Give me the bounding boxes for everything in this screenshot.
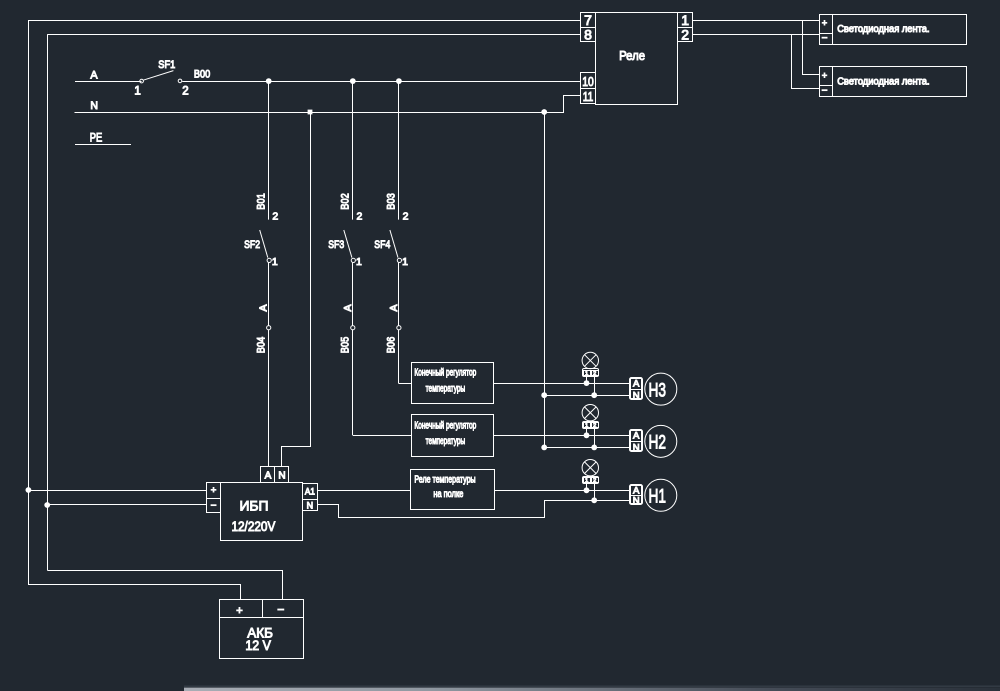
indicator lamp H1 circle	[582, 460, 598, 476]
breaker SF1 contact 1	[140, 79, 144, 83]
wire &#x412;06 segment	[398, 263, 400, 384]
junction A/SF4	[396, 78, 402, 84]
svg-text:1: 1	[356, 256, 362, 268]
svg-text:1: 1	[272, 256, 278, 268]
device H1 A/N inner box	[631, 486, 642, 504]
svg-text:A: A	[633, 379, 640, 390]
relay pin 7 box	[581, 13, 596, 28]
indicator lamp H2 circle	[582, 405, 598, 421]
limit regulator 2 box	[412, 415, 494, 457]
junction A/SF2	[266, 78, 272, 84]
wire shelf relay to H1 A	[494, 490, 629, 492]
svg-text:2: 2	[403, 210, 409, 222]
UPS top N terminal box	[275, 467, 289, 483]
breaker SF2 contact 1	[267, 258, 271, 262]
wire lamp H2 pin1 down	[586, 429, 588, 436]
svg-text:H3: H3	[649, 379, 667, 401]
svg-text:H1: H1	[649, 485, 667, 507]
wire -12V from UPS to relay pin 8 (vertical rail)	[47, 35, 49, 571]
wire UPS - output	[47, 504, 206, 506]
svg-text:8: 8	[584, 27, 592, 43]
svg-text:В04: В04	[255, 337, 267, 353]
wire A line left of SF1	[75, 81, 142, 83]
wire to battery +	[29, 585, 241, 600]
junction H3 lamp/N	[591, 392, 597, 398]
svg-text:Реле температуры: Реле температуры	[414, 474, 475, 485]
svg-text:2: 2	[593, 478, 596, 484]
wire relay pin1 to LED1 +	[693, 20, 820, 22]
device H2 A/N inner box	[631, 431, 642, 451]
svg-text:−: −	[822, 85, 828, 96]
limit regulator 1 box	[412, 363, 494, 404]
junction on +12V rail	[26, 487, 32, 493]
svg-text:+: +	[822, 18, 827, 28]
relay pin 2 box	[678, 28, 693, 42]
lamp H2 terminal cell 1	[584, 423, 591, 428]
terminal point on &#x412;05	[351, 326, 355, 330]
wire UPS + output	[28, 490, 206, 492]
LED strip 1 terminal divider	[819, 33, 833, 35]
svg-text:В01: В01	[255, 193, 267, 209]
svg-text:A1: A1	[305, 486, 315, 496]
wire relay pin2 to LED1 -	[693, 34, 820, 36]
shelf temp relay box	[411, 470, 495, 510]
battery terminal divider v	[262, 600, 264, 618]
svg-text:Реле: Реле	[619, 48, 645, 63]
wire lamp N bus vertical	[544, 112, 546, 447]
wire &#x412;01 upper segment	[268, 81, 270, 220]
indicator lamp H1 X stroke 1	[585, 462, 597, 474]
svg-text:Светодиодная лента.: Светодиодная лента.	[837, 24, 929, 35]
wire +12V horizontal to relay pin 7	[28, 20, 580, 22]
breaker SF2 blade	[260, 230, 268, 258]
svg-text:N: N	[633, 496, 640, 507]
wire &#x412;04 segment	[268, 263, 270, 467]
svg-text:A: A	[258, 304, 270, 311]
wire SF3 to regulator 2	[353, 435, 412, 437]
svg-text:−: −	[822, 33, 828, 44]
indicator lamp H3 circle	[582, 352, 598, 368]
LED strip 1 terminal column	[820, 15, 833, 45]
device H3 circle	[645, 373, 677, 405]
indicator lamp H3 X stroke 1	[585, 355, 597, 367]
svg-text:A: A	[633, 431, 640, 442]
svg-text:12/220V: 12/220V	[231, 518, 275, 534]
UPS box	[221, 483, 303, 541]
svg-text:N: N	[307, 500, 314, 510]
svg-text:ИБП: ИБП	[239, 498, 268, 514]
junction on -12V rail	[44, 502, 50, 508]
relay pin 10 box	[581, 73, 596, 89]
UPS top A terminal box	[261, 467, 275, 483]
wire lamp H3 pin1 down	[586, 377, 588, 384]
wire +12V from UPS to relay pin 7 (vertical rail)	[28, 20, 30, 585]
UPS right N terminal box	[303, 500, 318, 511]
wire &#x412;02 upper segment	[352, 81, 354, 220]
LED strip 2 box	[833, 67, 967, 97]
svg-text:2: 2	[272, 210, 278, 222]
junction H1 lamp/A	[584, 487, 590, 493]
svg-text:+: +	[211, 485, 217, 496]
svg-text:SF3: SF3	[328, 239, 344, 251]
svg-text:PE: PE	[90, 131, 103, 145]
wire N bus to H2 N	[544, 447, 629, 449]
wire regulator2 to H2 A	[494, 435, 630, 437]
svg-text:В02: В02	[339, 193, 351, 209]
device H3 A/N divider	[631, 389, 642, 391]
wire to battery -	[48, 571, 283, 600]
wire branch to LED2 -	[792, 35, 820, 89]
junction H2 lamp/A	[584, 432, 590, 438]
relay pin 11 box	[581, 89, 596, 104]
junction H2 lamp/N	[591, 445, 597, 451]
svg-text:SF2: SF2	[244, 239, 260, 251]
wire &#x412;05 segment	[352, 263, 354, 436]
svg-text:+: +	[822, 70, 827, 80]
svg-text:1: 1	[585, 423, 588, 429]
battery terminal divider h	[220, 617, 303, 619]
wire A line from SF1 to relay pin 10	[182, 81, 580, 83]
svg-text:2: 2	[357, 210, 363, 222]
LED strip 2 terminal column	[820, 67, 833, 97]
breaker SF3 blade	[344, 230, 352, 258]
device H2 circle	[645, 425, 677, 457]
svg-text:H2: H2	[649, 432, 667, 454]
svg-text:В06: В06	[386, 337, 398, 353]
device H3 A/N connector outline	[630, 378, 643, 400]
indicator lamp H1 X stroke 2	[585, 462, 597, 474]
svg-text:1: 1	[134, 86, 140, 98]
svg-text:температуры: температуры	[426, 383, 466, 394]
device H1 circle	[645, 479, 677, 511]
svg-text:1: 1	[585, 478, 588, 484]
relay box	[596, 13, 678, 105]
wire branch to LED2 +	[803, 21, 820, 75]
svg-text:A: A	[388, 304, 400, 311]
svg-text:1: 1	[402, 256, 408, 268]
relay pin 1 box	[678, 13, 693, 28]
junction N bus / H3	[541, 392, 547, 398]
UPS - terminal box	[207, 499, 221, 513]
svg-text:N: N	[278, 470, 285, 481]
wire lamp H2 pin2 down	[594, 429, 596, 448]
svg-text:2: 2	[593, 371, 596, 377]
breaker SF3 contact 1	[351, 258, 355, 262]
device H1 A/N divider	[631, 495, 642, 497]
wire N branch to UPS input	[282, 113, 311, 467]
indicator lamp H3 X stroke 2	[585, 355, 597, 367]
svg-text:2: 2	[182, 86, 188, 98]
svg-text:A: A	[342, 304, 354, 311]
svg-text:2: 2	[681, 27, 689, 43]
junction N/lamp bus	[541, 109, 547, 115]
svg-text:A: A	[90, 70, 98, 82]
wire UPS N to H1 N	[318, 501, 630, 518]
breaker SF1 blade	[143, 71, 173, 81]
wire lamp H1 pin1 down	[586, 484, 588, 491]
svg-text:SF1: SF1	[158, 59, 175, 71]
junction H3 lamp/A	[584, 380, 590, 386]
terminal point on &#x412;04	[267, 326, 271, 330]
wire N bus to H3 N	[544, 395, 629, 397]
svg-text:В00: В00	[194, 68, 210, 80]
lamp H1 terminal cell 1	[584, 478, 591, 483]
lamp H1 terminal block	[583, 477, 599, 484]
lamp H1 terminal cell 2	[592, 478, 599, 483]
lamp H3 terminal block	[583, 369, 599, 377]
svg-text:+: +	[236, 605, 242, 617]
lamp H3 terminal cell 2	[592, 371, 599, 376]
svg-text:−: −	[211, 501, 217, 512]
LED strip 2 terminal divider	[819, 85, 833, 87]
svg-text:N: N	[633, 390, 640, 401]
svg-text:В05: В05	[339, 337, 351, 353]
device H2 A/N connector outline	[630, 430, 643, 452]
svg-text:на полке: на полке	[433, 489, 463, 500]
svg-text:В03: В03	[386, 193, 398, 209]
device H2 A/N divider	[631, 441, 642, 443]
indicator lamp H2 X stroke 2	[585, 407, 597, 419]
svg-text:Светодиодная лента.: Светодиодная лента.	[837, 77, 929, 88]
svg-text:2: 2	[593, 423, 596, 429]
wire -12V horizontal to relay pin 8	[47, 34, 580, 36]
svg-text:N: N	[90, 100, 98, 112]
relay pin 8 box	[581, 28, 596, 42]
junction A/SF3	[350, 78, 356, 84]
svg-text:SF4: SF4	[374, 239, 390, 251]
svg-text:1: 1	[585, 371, 588, 377]
LED strip 1 box	[833, 15, 967, 45]
svg-text:A: A	[265, 470, 272, 481]
svg-text:12 V: 12 V	[245, 637, 271, 653]
UPS A1 terminal box	[303, 484, 318, 500]
lamp H3 terminal cell 1	[584, 371, 591, 376]
wire UPS A1 to H1 (left of box)	[317, 490, 411, 492]
breaker SF4 contact 1	[397, 258, 401, 262]
UPS + terminal box	[207, 483, 221, 499]
svg-text:N: N	[633, 443, 640, 454]
svg-text:температуры: температуры	[426, 436, 466, 447]
terminal point on &#x412;06	[397, 326, 401, 330]
wire PE stub	[75, 144, 131, 146]
junction N bus / H2	[541, 445, 547, 451]
device H3 A/N inner box	[631, 379, 642, 399]
lamp H2 terminal cell 2	[592, 423, 599, 428]
junction N/UPS branch (square)	[308, 110, 313, 115]
wire N line to relay pin 11	[75, 96, 581, 113]
breaker SF4 blade	[390, 230, 398, 258]
wire &#x412;03 upper segment	[398, 81, 400, 220]
wire lamp H1 pin2 down	[594, 484, 596, 501]
svg-text:Конечный регулятор: Конечный регулятор	[414, 420, 476, 431]
junction H1 lamp/N	[591, 497, 597, 503]
indicator lamp H2 X stroke 1	[585, 407, 597, 419]
svg-text:−: −	[277, 603, 284, 617]
wire SF4 to regulator 1	[399, 383, 412, 385]
svg-text:10: 10	[582, 74, 594, 89]
battery box	[220, 600, 304, 659]
wire lamp H3 pin2 down	[594, 377, 596, 396]
device H1 A/N connector outline	[630, 485, 643, 505]
svg-text:Конечный регулятор: Конечный регулятор	[414, 368, 476, 379]
breaker SF1 contact 2	[178, 79, 182, 83]
lamp H2 terminal block	[583, 422, 599, 429]
svg-text:11: 11	[583, 89, 594, 104]
wire regulator1 to H3 A	[494, 383, 630, 385]
